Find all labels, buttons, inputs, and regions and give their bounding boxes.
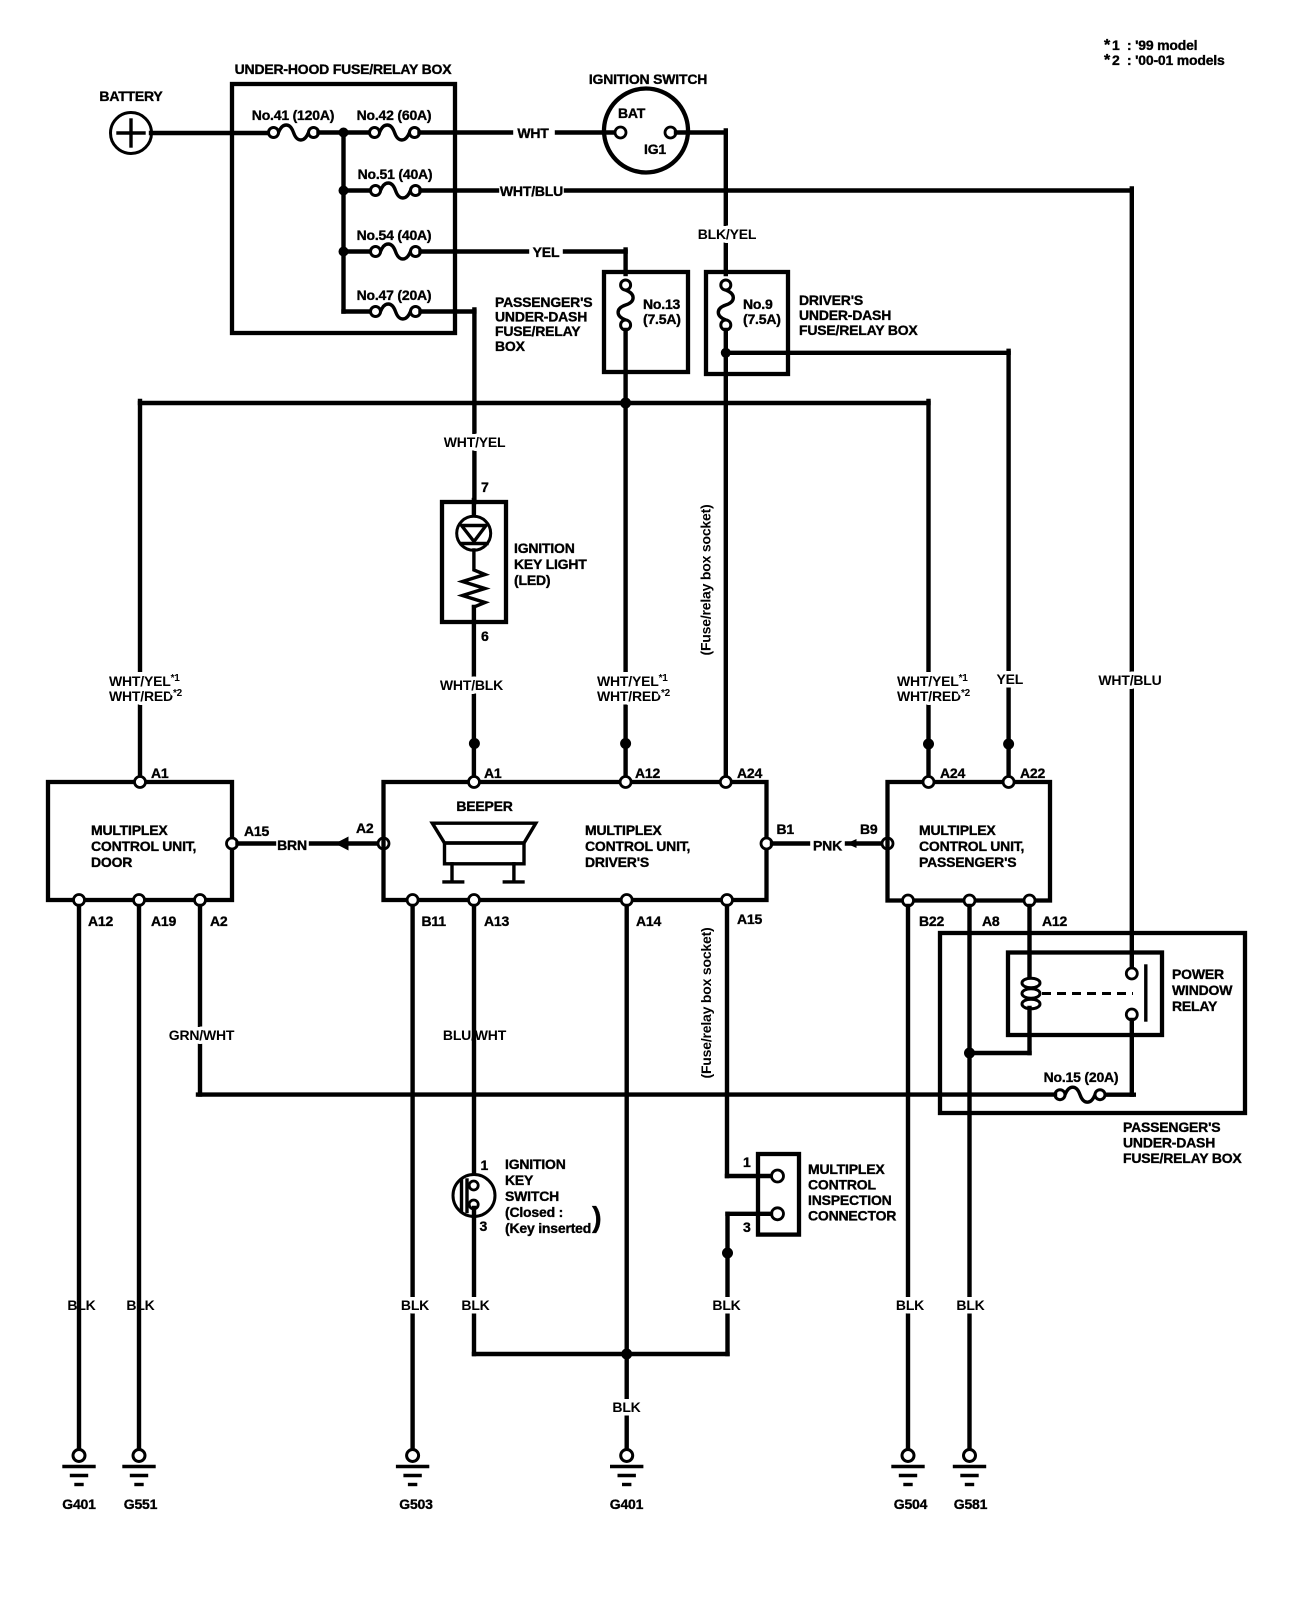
svg-text:No.41 (120A): No.41 (120A): [252, 107, 334, 123]
svg-text:B1: B1: [777, 821, 795, 837]
pin A2 door: [195, 895, 206, 906]
wire label WHT/YEL*1 WHT/RED*2 (left): [107, 672, 197, 704]
svg-text:No.42 (60A): No.42 (60A): [357, 107, 432, 123]
resistor in key light: [463, 550, 486, 607]
pin A13 driver: [469, 895, 480, 906]
multiplex control unit passenger box: [888, 782, 1051, 901]
wire contact bottom to fuse No.15: [1107, 1020, 1134, 1095]
svg-text:WHT/YEL*1: WHT/YEL*1: [597, 673, 668, 689]
pin A19 door: [134, 895, 145, 906]
pin B11 driver: [407, 895, 418, 906]
No.9 fuse box: [706, 272, 788, 374]
svg-text:UNDER-DASH: UNDER-DASH: [799, 307, 891, 323]
wire coil bottom to A8 line: [970, 1051, 1030, 1055]
fuse No.9 (7.5A): [718, 280, 733, 330]
ignition key light label: [514, 540, 587, 588]
wire WHT/BLU row: [421, 188, 1132, 192]
node dot below pin 3: [722, 1248, 733, 1259]
svg-text:CONTROL UNIT,: CONTROL UNIT,: [585, 838, 690, 854]
fuse No.15: [1055, 1087, 1105, 1102]
svg-text:): ): [592, 1202, 602, 1234]
wire label YEL (right): [994, 671, 1026, 687]
wire No.9 down to driver A24: [724, 330, 728, 782]
svg-text:G504: G504: [894, 1496, 928, 1512]
svg-text:BLK: BLK: [956, 1297, 984, 1313]
node dot on YEL line: [1003, 739, 1014, 750]
wire PNK driver B1 to passenger B9: [772, 841, 882, 845]
svg-text:(Fuse/relay box socket): (Fuse/relay box socket): [698, 504, 714, 655]
wire label WHT/BLK: [438, 677, 506, 693]
pin A8 passenger: [964, 895, 975, 906]
wire label BLK (A8): [955, 1297, 986, 1313]
passenger's under-dash fuse/relay box label (top): [495, 294, 592, 354]
multiplex control unit passenger label: [919, 822, 1024, 870]
wire WHT/BLU vertical: [1130, 189, 1134, 969]
svg-text:A12: A12: [88, 913, 113, 929]
svg-text:BLK: BLK: [67, 1297, 95, 1313]
svg-text:WHT/BLU: WHT/BLU: [500, 183, 563, 199]
wire label BLK/YEL: [697, 226, 757, 242]
svg-text:IGNITION: IGNITION: [514, 540, 575, 556]
multiplex control inspection connector box: [758, 1154, 799, 1235]
wire battery to fuse box: [151, 131, 268, 135]
wire A13 to key switch: [472, 906, 476, 1182]
wire A8 to ground: [967, 906, 971, 1450]
svg-text:UNDER-DASH: UNDER-DASH: [495, 309, 587, 325]
svg-text:FUSE/RELAY: FUSE/RELAY: [495, 323, 581, 339]
svg-text:CONNECTOR: CONNECTOR: [808, 1208, 896, 1224]
svg-text:MULTIPLEX: MULTIPLEX: [808, 1161, 885, 1177]
battery: [111, 113, 152, 154]
under-hood fuse/relay box: [232, 84, 455, 333]
relay contact: [1126, 966, 1146, 1020]
svg-text:B9: B9: [860, 821, 878, 837]
svg-text:WHT/RED*2: WHT/RED*2: [897, 688, 971, 704]
svg-text:WHT/YEL*1: WHT/YEL*1: [897, 673, 968, 689]
wire label BLK (inspection): [711, 1297, 742, 1313]
wire label GRN/WHT: [166, 1027, 237, 1043]
svg-text:1: 1: [743, 1154, 751, 1170]
wire B11 to ground: [410, 906, 414, 1450]
svg-text:BEEPER: BEEPER: [456, 798, 512, 814]
svg-text:IGNITION: IGNITION: [505, 1156, 566, 1172]
svg-text:MULTIPLEX: MULTIPLEX: [585, 822, 662, 838]
svg-text:YEL: YEL: [996, 671, 1023, 687]
svg-text:BLK: BLK: [896, 1297, 924, 1313]
ground G503 (B11): [398, 1450, 434, 1513]
fuse No.9 label: [743, 296, 781, 327]
svg-text:KEY LIGHT: KEY LIGHT: [514, 556, 587, 572]
svg-text:A15: A15: [737, 911, 762, 927]
svg-text:FUSE/RELAY BOX: FUSE/RELAY BOX: [1123, 1150, 1242, 1166]
svg-text:No.47 (20A): No.47 (20A): [357, 287, 432, 303]
pin A24 driver: [720, 777, 731, 788]
svg-text:DOOR: DOOR: [91, 854, 132, 870]
wire label BLK (B22): [895, 1297, 926, 1313]
fuse No.41: [269, 125, 319, 140]
wire key switch to bottom BLK bus: [474, 1208, 728, 1354]
svg-text:3: 3: [480, 1218, 488, 1234]
svg-text:(Key inserted: (Key inserted: [505, 1220, 591, 1236]
node dot above driver A1: [469, 738, 480, 749]
multiplex control unit door label: [91, 822, 196, 870]
node dot BLK bus: [621, 1349, 632, 1360]
svg-text:G551: G551: [124, 1496, 158, 1512]
svg-text:RELAY: RELAY: [1172, 998, 1218, 1014]
node tap No.54: [339, 247, 349, 257]
legend note *1 *2: [1104, 37, 1225, 69]
ground G504 (B22): [893, 1450, 928, 1513]
relay coil: [1022, 978, 1040, 1009]
wire BRN door A15 to driver A2: [238, 841, 379, 845]
vertical bus inside under-hood box: [341, 133, 345, 312]
svg-text:BLK/YEL: BLK/YEL: [698, 226, 757, 242]
wire A14 to ground: [625, 906, 629, 1450]
svg-text:SWITCH: SWITCH: [505, 1188, 559, 1204]
wire IG1 to BLK/YEL drop: [676, 131, 726, 275]
svg-text:(7.5A): (7.5A): [643, 311, 681, 327]
ignition key light box: [442, 502, 506, 622]
svg-text:WHT/BLK: WHT/BLK: [440, 677, 503, 693]
svg-text:PASSENGER'S: PASSENGER'S: [495, 294, 592, 310]
svg-text:No.9: No.9: [743, 296, 773, 312]
relay dashed link: [1042, 992, 1133, 995]
svg-text:A1: A1: [151, 765, 169, 781]
multiplex control unit door box: [48, 782, 232, 900]
main bus wire y=403: [140, 401, 929, 782]
svg-text:A12: A12: [1042, 913, 1067, 929]
node junction below No.9: [721, 348, 731, 358]
No.13 fuse box: [604, 272, 688, 372]
pin B22 passenger: [903, 895, 914, 906]
svg-text:G401: G401: [610, 1496, 644, 1512]
svg-text:GRN/WHT: GRN/WHT: [169, 1027, 235, 1043]
svg-text:A1: A1: [484, 765, 502, 781]
svg-text:UNDER-HOOD FUSE/RELAY BOX: UNDER-HOOD FUSE/RELAY BOX: [235, 61, 453, 77]
svg-text:PASSENGER'S: PASSENGER'S: [1123, 1119, 1220, 1135]
multiplex control unit driver box: [384, 782, 767, 900]
svg-text:A24: A24: [737, 765, 762, 781]
pin A15 door: [227, 838, 238, 849]
svg-text:G401: G401: [62, 1496, 96, 1512]
svg-text:BAT: BAT: [618, 105, 646, 121]
svg-text:IG1: IG1: [644, 141, 666, 157]
pin A12 driver: [620, 777, 631, 788]
svg-text:BLK: BLK: [612, 1399, 640, 1415]
svg-text:BLK: BLK: [712, 1297, 740, 1313]
svg-text:No.51 (40A): No.51 (40A): [358, 166, 433, 182]
svg-text:(Closed :: (Closed :: [505, 1204, 563, 1220]
LED lamp: [457, 500, 491, 550]
pin A12 passenger: [1024, 895, 1035, 906]
svg-text:PNK: PNK: [813, 838, 842, 854]
svg-text:BLK: BLK: [401, 1297, 429, 1313]
svg-text:IGNITION SWITCH: IGNITION SWITCH: [589, 71, 707, 87]
svg-text:BRN: BRN: [277, 837, 307, 853]
svg-text:WHT/RED*2: WHT/RED*2: [109, 688, 183, 704]
svg-text:WINDOW: WINDOW: [1172, 982, 1233, 998]
wire label WHT/BLU (vertical): [1096, 672, 1164, 688]
svg-text:KEY: KEY: [505, 1172, 534, 1188]
svg-text:BATTERY: BATTERY: [99, 88, 163, 104]
svg-text:A13: A13: [484, 913, 509, 929]
svg-text:DRIVER'S: DRIVER'S: [585, 854, 649, 870]
wire key light to driver A1: [472, 607, 476, 782]
node tap No.51: [339, 186, 349, 196]
svg-text:A8: A8: [982, 913, 1000, 929]
wire inspection pin3 down to BLK bus: [728, 1214, 772, 1354]
wire A12 passenger to relay coil: [1027, 906, 1031, 979]
wire WHT fuse42 to ignition switch: [420, 130, 615, 134]
node dot bus/YEL: [620, 398, 631, 409]
pin B9 passenger: [882, 838, 893, 849]
wire YEL row: [421, 250, 626, 275]
wire GRN/WHT door A2 down and across: [198, 906, 1055, 1095]
ground G551 (door A19): [124, 1450, 158, 1513]
beeper: [432, 823, 536, 882]
svg-text:WHT/RED*2: WHT/RED*2: [597, 688, 671, 704]
inspection connector pin 1: [772, 1170, 784, 1182]
wire label BLK (door A19): [125, 1297, 156, 1313]
multiplex control inspection connector label: [808, 1161, 896, 1224]
svg-text:3: 3: [743, 1219, 751, 1235]
pin A2 driver (left): [378, 838, 389, 849]
node dot above passenger A24: [923, 739, 934, 750]
svg-text:1: 1: [481, 1157, 489, 1173]
pin A1 door: [135, 777, 146, 788]
wire door A19 to ground: [137, 906, 141, 1450]
svg-text:G503: G503: [399, 1496, 433, 1512]
wire fuse47 output: [421, 310, 475, 503]
wire driver A15 to inspection connector pin1: [727, 906, 771, 1176]
wire x=625.6 bus to driver A12: [623, 403, 627, 782]
svg-text:DRIVER'S: DRIVER'S: [799, 292, 863, 308]
wire label BLK (bottom A14): [611, 1399, 642, 1415]
svg-text:(7.5A): (7.5A): [743, 311, 781, 327]
wire label BLK (A13): [460, 1297, 491, 1313]
ground G581 (A8): [954, 1450, 988, 1513]
svg-text:INSPECTION: INSPECTION: [808, 1192, 892, 1208]
pin A15 driver: [722, 895, 733, 906]
svg-text:A19: A19: [151, 913, 176, 929]
svg-text:A2: A2: [356, 820, 374, 836]
wire label WHT/YEL*1 WHT/RED*2 (right): [895, 672, 985, 704]
wire B22 to ground: [906, 906, 910, 1450]
ignition switch: [604, 89, 688, 173]
svg-text:BOX: BOX: [495, 338, 526, 354]
svg-text:WHT/YEL*1: WHT/YEL*1: [109, 673, 180, 689]
wire coil bottom: [1027, 1008, 1031, 1053]
pin A24 passenger: [923, 777, 934, 788]
fuse No.42: [370, 125, 420, 140]
power window relay box: [1008, 953, 1162, 1036]
svg-text:G581: G581: [954, 1496, 988, 1512]
fuse No.13 (7.5A): [618, 280, 633, 330]
svg-text:WHT/BLU: WHT/BLU: [1098, 672, 1161, 688]
svg-text:B22: B22: [919, 913, 944, 929]
svg-text:A14: A14: [636, 913, 661, 929]
svg-text:*2 : '00-01 models: *2 : '00-01 models: [1104, 52, 1225, 69]
svg-text:MULTIPLEX: MULTIPLEX: [91, 822, 168, 838]
svg-text:No.13: No.13: [643, 296, 681, 312]
fuse No.54: [344, 244, 421, 259]
driver's under-dash fuse/relay box label: [799, 292, 918, 338]
svg-text:A24: A24: [940, 765, 965, 781]
wire label WHT/YEL*1 WHT/RED*2 (middle): [595, 672, 685, 704]
svg-text:PASSENGER'S: PASSENGER'S: [919, 854, 1016, 870]
svg-text:No.54 (40A): No.54 (40A): [357, 227, 432, 243]
svg-text:A12: A12: [635, 765, 660, 781]
svg-text:No.15 (20A): No.15 (20A): [1044, 1069, 1119, 1085]
arrow on BRN wire: [335, 837, 349, 851]
passenger's under-dash fuse/relay box label (bottom right): [1123, 1119, 1242, 1166]
svg-text:WHT/YEL: WHT/YEL: [444, 434, 506, 450]
wire No.13 to bus: [623, 330, 627, 403]
svg-text:CONTROL UNIT,: CONTROL UNIT,: [91, 838, 196, 854]
multiplex control unit driver label: [585, 822, 690, 870]
svg-text:(LED): (LED): [514, 572, 550, 588]
svg-text:CONTROL UNIT,: CONTROL UNIT,: [919, 838, 1024, 854]
wire label BLK (door A12): [66, 1297, 97, 1313]
svg-text:6: 6: [481, 628, 489, 644]
wire No.9 junction to YEL drop: [726, 351, 1009, 782]
svg-text:FUSE/RELAY BOX: FUSE/RELAY BOX: [799, 322, 918, 338]
svg-text:A15: A15: [244, 823, 269, 839]
svg-text:B11: B11: [422, 913, 447, 929]
ignition key switch: [453, 1175, 495, 1217]
svg-text:MULTIPLEX: MULTIPLEX: [919, 822, 996, 838]
svg-text:A2: A2: [210, 913, 228, 929]
node dot above driver A12: [620, 738, 631, 749]
power window relay label: [1172, 966, 1233, 1014]
passenger's under-dash fuse/relay box (bottom): [940, 933, 1245, 1113]
svg-text:UNDER-DASH: UNDER-DASH: [1123, 1135, 1215, 1151]
fuse No.13 label: [643, 296, 681, 327]
svg-text:(Fuse/relay box socket): (Fuse/relay box socket): [698, 927, 714, 1078]
svg-text:YEL: YEL: [533, 244, 560, 260]
fuse No.47: [344, 304, 421, 319]
wire label BLU/WHT: [440, 1027, 510, 1043]
svg-text:CONTROL: CONTROL: [808, 1177, 876, 1193]
fuse No.51: [344, 183, 421, 198]
svg-text:WHT: WHT: [517, 125, 549, 141]
node junction No.41/No.42: [339, 128, 349, 138]
pin A1 driver: [469, 777, 480, 788]
svg-text:A22: A22: [1020, 765, 1045, 781]
wire fuse41 to junction: [319, 130, 369, 134]
arrow on PNK wire: [847, 839, 857, 848]
svg-text:POWER: POWER: [1172, 966, 1224, 982]
svg-text:7: 7: [481, 479, 489, 495]
pin A22 passenger: [1003, 777, 1014, 788]
ground G401 (A14): [610, 1450, 644, 1513]
wire label WHT/YEL: [441, 434, 509, 450]
svg-text:BLK: BLK: [461, 1297, 489, 1313]
pin A12 door: [74, 895, 85, 906]
wire door A12 to ground: [77, 906, 81, 1450]
wire label BLK (B11): [400, 1297, 431, 1313]
ignition key switch label: [505, 1156, 602, 1236]
pin B1 driver: [761, 838, 772, 849]
node dot A8/coil: [964, 1048, 975, 1059]
inspection connector pin 3: [772, 1208, 784, 1220]
ground G401 (door A12): [62, 1450, 96, 1513]
pin A14 driver: [621, 895, 632, 906]
